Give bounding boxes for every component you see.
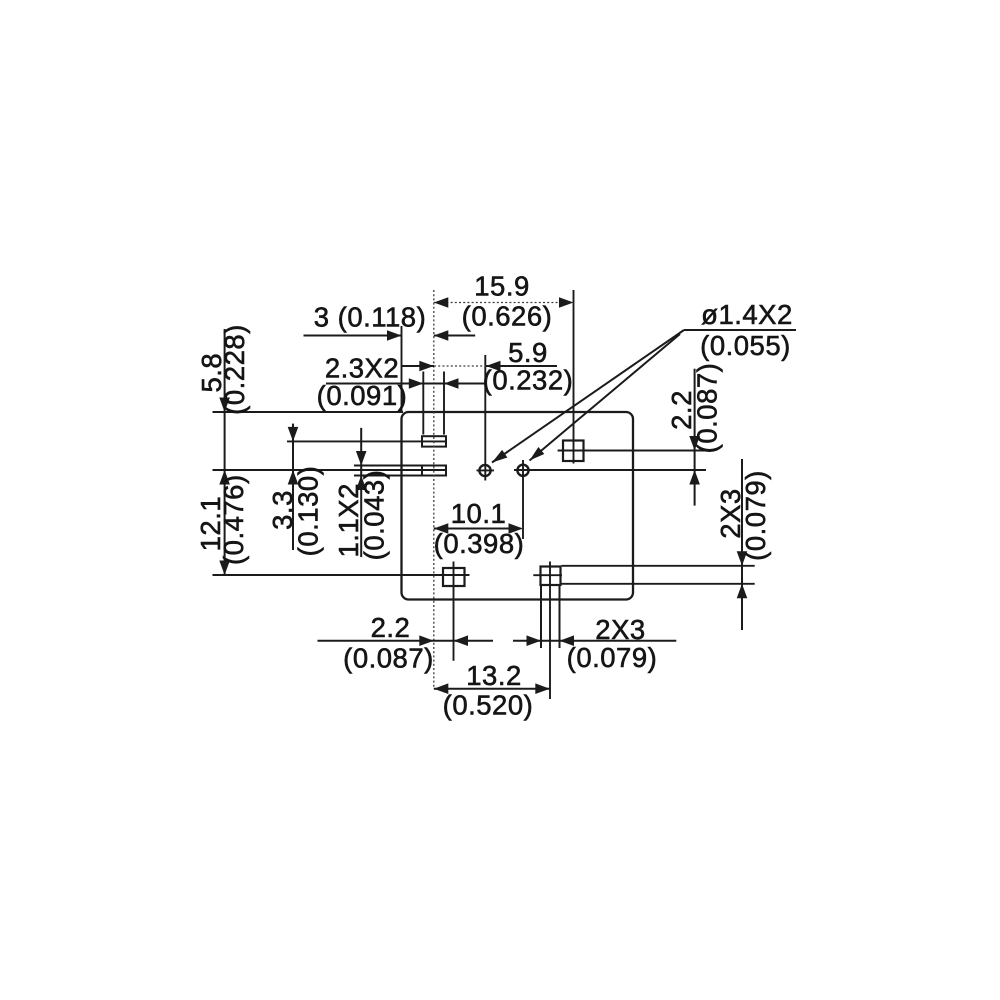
extension line pad P5 left edge down (540, 586, 542, 648)
svg-text:2.2: 2.2 (371, 612, 411, 643)
dimension line 5.8 and 12.1 vertical (224, 329, 226, 575)
pad P3 (top right square pad 2x3) (563, 441, 584, 462)
dimension line 3.3 vertical (292, 424, 294, 550)
arrow leader at hole H2 (530, 447, 545, 461)
leader line to hole H2 (530, 334, 681, 461)
dimension line 3 right segment (434, 335, 475, 337)
centerline hole H2 vertical (522, 460, 524, 539)
arrow 3 right-pointing at body edge (387, 330, 402, 341)
arrow 10.1 right (509, 523, 524, 534)
centerline hole H1 vertical (484, 355, 486, 481)
arrow 5.8 down at body top (219, 398, 230, 413)
centerline pad P5 vertical (549, 562, 551, 700)
svg-text:ø1.4X2: ø1.4X2 (701, 299, 793, 330)
centerline pads row2 / holes extended left (213, 469, 447, 471)
arrow 2X3 bottom left-pointing (560, 635, 575, 646)
svg-text:(0.079): (0.079) (567, 642, 658, 673)
centerline pad P3 vertical (573, 290, 575, 464)
svg-text:(0.398): (0.398) (434, 528, 525, 559)
arrow 13.2 right (535, 683, 550, 694)
arrow 15.9 right (559, 297, 574, 308)
dimension line 2.2 right vertical (694, 369, 696, 506)
svg-text:(0.055): (0.055) (700, 330, 791, 361)
leader underline of hole callout (684, 329, 796, 331)
arrow 1.1X2 down at pad P2 top (356, 451, 367, 466)
svg-text:15.9: 15.9 (474, 271, 530, 302)
arrow 2.3X2 left-pointing (444, 378, 459, 389)
centerline pad P3 horizontal extended right (558, 450, 706, 452)
svg-text:(0.079): (0.079) (740, 470, 771, 561)
extension line pad P5 top edge extended right (562, 565, 755, 567)
pad P5 (bottom right square pad) (541, 567, 561, 586)
arrow 10.1 left (434, 523, 449, 534)
svg-text:10.1: 10.1 (451, 498, 507, 529)
centerline pad P4 vertical (453, 562, 455, 661)
svg-text:(0.476): (0.476) (218, 474, 249, 565)
arrow 12.1 up at centerline (219, 470, 230, 485)
centerline pad column vertical long (433, 290, 435, 689)
arrow 5.9 left-pointing (486, 361, 501, 372)
dimension line 2X3 right vertical (741, 459, 743, 630)
arrow 13.2 left (434, 683, 449, 694)
dimension line 2X3 bottom (513, 640, 676, 642)
pad P4 (bottom left square pad) (443, 568, 465, 586)
dimension line 1.1X2 vertical (360, 428, 362, 557)
svg-text:3 (0.118): 3 (0.118) (314, 302, 427, 333)
extension line pad P2 bottom edge (354, 475, 446, 477)
arrow 1.1X2 up at pad P2 bottom (356, 476, 367, 491)
arrow 3.3 down at pad P1 centerline (288, 427, 299, 442)
arrow leader at hole H1 (492, 450, 507, 463)
arrow 2.3X2 right-pointing (409, 378, 424, 389)
svg-text:(0.087): (0.087) (343, 643, 434, 674)
arrow 2.2 right down (689, 436, 700, 451)
svg-text:13.2: 13.2 (466, 660, 522, 691)
centerline pad P5 horizontal (533, 574, 562, 576)
hole H1 (round hole 1.4) (479, 465, 490, 476)
svg-text:(0.087): (0.087) (692, 363, 723, 454)
extension line pad P5 right edge down (559, 586, 561, 648)
arrow 2.2 bottom left-pointing (454, 635, 469, 646)
svg-text:(0.130): (0.130) (293, 466, 324, 557)
pad P1 (upper left SMD pad 2.3x1.1) (422, 436, 446, 446)
arrow 5.9 right-pointing (419, 361, 434, 372)
svg-text:2.3X2: 2.3X2 (325, 353, 399, 384)
arrow 2.2 bottom right-pointing (419, 635, 434, 646)
centerline bottom pads extended left (213, 574, 470, 576)
arrow 2X3 right down (737, 551, 748, 566)
dimension line 3 left segment (304, 335, 402, 337)
body outline (402, 412, 634, 600)
arrow 3.3 up at holes centerline (288, 470, 299, 485)
arrow 3 left-pointing at pad centerline (434, 330, 449, 341)
arrow 2X3 bottom right-pointing (527, 635, 542, 646)
dimension line 5.9 (402, 365, 434, 367)
centerline hole H1 horizontal (477, 469, 495, 471)
svg-text:(0.228): (0.228) (219, 324, 250, 415)
dimension line 13.2 (434, 688, 550, 690)
svg-text:5.9: 5.9 (508, 337, 548, 368)
svg-text:(0.626): (0.626) (462, 301, 553, 332)
centerline pad P1 horizontal (287, 440, 447, 442)
hole H2 (round hole 1.4) (517, 465, 528, 476)
leader line to hole H1 (492, 330, 684, 463)
extension line pad left edge 2.3 (422, 372, 424, 435)
svg-text:(0.520): (0.520) (443, 690, 534, 721)
pad P2 (lower left SMD pad 2.3x1.1) (422, 466, 446, 476)
svg-text:2X3: 2X3 (595, 614, 645, 645)
dimension line 2.3X2 (326, 383, 486, 385)
centerline hole H2 horizontal extended right (514, 469, 706, 471)
svg-text:(0.043): (0.043) (359, 470, 390, 561)
extension line body left edge extended up (401, 326, 403, 412)
extension line pad P2 top edge (354, 465, 446, 467)
extension line pad P5 bottom edge extended right (562, 583, 755, 585)
dimension line 15.9 (434, 302, 574, 304)
extension line pad right edge 2.3 (443, 372, 445, 435)
arrow 2.2 right up (689, 470, 700, 485)
dimension line 2.2 bottom (318, 640, 494, 642)
arrow 15.9 left (434, 297, 449, 308)
arrow 12.1 down at bottom pads centerline (219, 561, 230, 576)
dimension line 10.1 (434, 528, 521, 530)
extension line body top extended left (213, 411, 404, 413)
arrow 2X3 right up (737, 584, 748, 599)
svg-text:(0.232): (0.232) (483, 365, 574, 396)
svg-text:(0.091): (0.091) (317, 380, 408, 411)
